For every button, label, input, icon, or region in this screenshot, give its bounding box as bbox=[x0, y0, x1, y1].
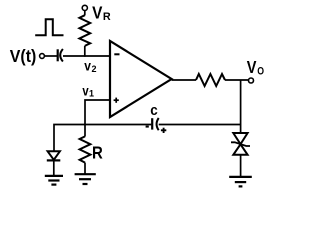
wire resistor to Vo terminal bbox=[225, 79, 249, 81]
terminal circle VR bbox=[82, 5, 87, 10]
bottom rail right: capacitor C to zener vertical bbox=[159, 124, 241, 126]
capacitor input (flat plate) bbox=[57, 49, 59, 61]
diode D1 cathode bar bbox=[47, 159, 61, 161]
terminal circle Vo bbox=[249, 78, 254, 83]
zener bottom triangle bbox=[233, 144, 247, 155]
input terminal circle bbox=[40, 54, 45, 59]
output wire from op-amp to resistor bbox=[172, 79, 196, 81]
wire VR terminal to resistor bbox=[84, 11, 86, 16]
pulse waveform annotation bbox=[35, 19, 63, 35]
wire input terminal to capacitor bbox=[45, 55, 58, 57]
svg-text:v: v bbox=[84, 58, 91, 73]
svg-text:c: c bbox=[150, 103, 158, 119]
wire resistor R to ground bbox=[84, 163, 86, 175]
zener middle bar bbox=[231, 142, 250, 146]
svg-text:R: R bbox=[103, 11, 111, 23]
svg-text:V: V bbox=[92, 3, 103, 23]
op-amp plus sign bbox=[114, 99, 119, 101]
zener top triangle bbox=[233, 133, 247, 144]
wire resistor to node v2 bbox=[84, 46, 86, 57]
op-amp minus sign bbox=[114, 53, 119, 55]
svg-text:R: R bbox=[92, 142, 103, 162]
wire output node down to zener bbox=[240, 80, 242, 134]
wire rail to resistor R bbox=[84, 125, 86, 137]
wire node v2 to op-amp inverting input bbox=[63, 55, 110, 57]
wire v1 node to op-amp noninverting input and down to rail bbox=[85, 100, 110, 125]
svg-text:1: 1 bbox=[89, 89, 94, 99]
resistor Ro horizontal zigzag bbox=[196, 74, 225, 86]
ground under diode bbox=[45, 175, 63, 177]
resistor R vertical zigzag bbox=[80, 136, 91, 162]
capacitor input (curved plate) bbox=[60, 49, 63, 62]
capacitor C flat plate bbox=[151, 118, 153, 129]
resistor RVR vertical zigzag bbox=[79, 15, 90, 46]
wire zener to ground bbox=[240, 155, 242, 177]
svg-text:2: 2 bbox=[92, 64, 97, 74]
capacitor C plus sign bbox=[161, 129, 166, 131]
ground under R bbox=[75, 173, 96, 175]
capacitor C curved plate bbox=[157, 118, 159, 130]
svg-text:V(t): V(t) bbox=[10, 46, 37, 66]
wire diode to ground bbox=[53, 160, 55, 176]
bottom rail left: diode corner to capacitor C bbox=[54, 125, 151, 152]
capacitor C minus sign bbox=[146, 126, 149, 128]
svg-text:V: V bbox=[247, 57, 257, 77]
op-amp U1 triangle bbox=[110, 41, 172, 117]
ground under zener bbox=[229, 176, 252, 178]
svg-text:O: O bbox=[257, 65, 264, 77]
diode D1 triangle bbox=[48, 151, 60, 160]
